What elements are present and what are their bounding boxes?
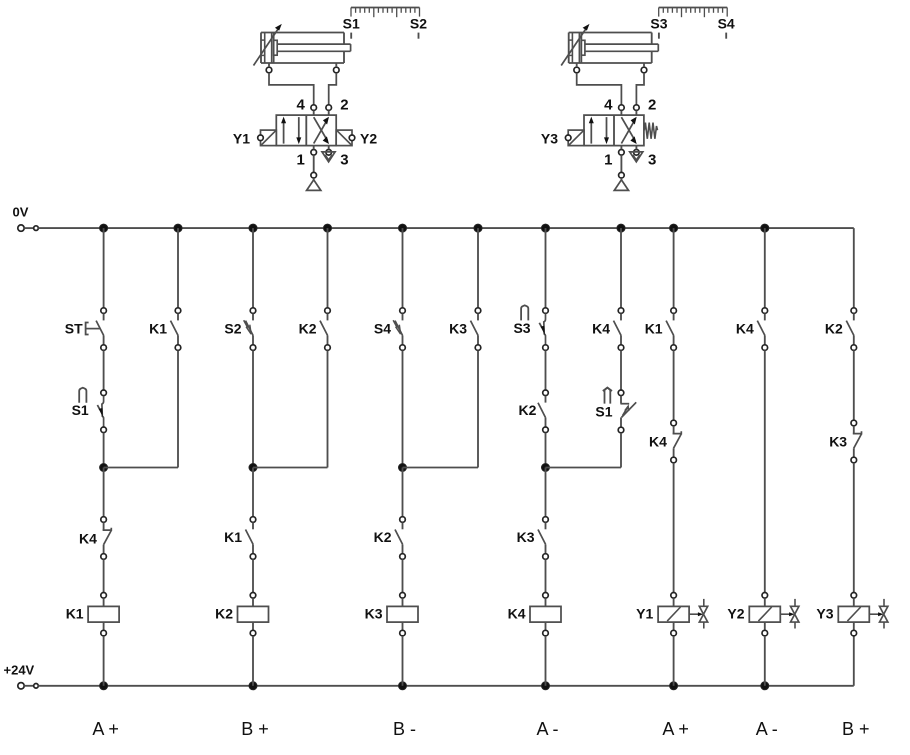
valve V1 port 3 [326,150,332,156]
junction node A4 [542,464,550,472]
svg-text:K3: K3 [517,529,535,545]
magnet symbol of S1 break [603,388,612,404]
svg-text:A -: A - [536,719,558,739]
svg-text:K4: K4 [736,320,754,336]
junction node rail-bottom branch 9 [670,682,678,690]
contact K3 (NO) b6 [471,308,481,351]
contact K2 (NO) b5 [395,517,405,560]
junction node A3 [399,464,407,472]
wire branch5 to coil [402,559,404,592]
wire branch10 to Y2 [764,350,766,592]
+24V supply rail [38,685,854,687]
wire branch1 junction to K4 [103,468,105,517]
cylinder port right stub [335,63,337,67]
svg-text:K4: K4 [649,433,667,449]
valve V2 port 4 [619,105,625,111]
wire branch3 to coil [252,559,254,592]
wire branch5 to junction [402,350,404,467]
0V rail corner to branch 11 [853,228,855,308]
svg-text:A -: A - [756,719,778,739]
limit switch S2 (NO) [246,308,256,351]
svg-text:K2: K2 [299,320,317,336]
S4 actuation arrow [393,320,400,334]
svg-text:ST: ST [65,320,83,336]
relay coil K4 [530,593,561,636]
port 4 stub [620,111,622,116]
svg-text:+24V: +24V [4,662,35,677]
svg-text:B -: B - [393,719,416,739]
wire branch5 top [402,228,404,308]
wire branch8 mid [620,350,622,390]
exhaust silencer at port 3 [630,152,643,162]
svg-text:K2: K2 [518,402,536,418]
junction node rail-top branch 9 [670,224,678,232]
contact K4 (NO) b10 [757,308,767,351]
wire branch9 bottom [673,636,675,686]
svg-text:S1: S1 [343,15,360,31]
+24V rail corner to branch 11 [853,636,855,686]
relay coil K2 [238,593,269,636]
junction node rail-top branch 10 [761,224,769,232]
junction node A2 [249,464,257,472]
svg-text:Y3: Y3 [541,130,558,146]
wire branch10 top [764,228,766,308]
valve V1 right-position crossed flow arrows [314,117,329,144]
svg-text:S1: S1 [595,404,612,420]
svg-text:S4: S4 [374,320,391,336]
svg-text:B +: B + [241,719,269,739]
port 4 stub [313,111,315,116]
limit switch S4 (NO) [395,308,405,351]
wire branch3 junction to K1 [252,468,254,517]
junction node rail-top branch 7 [542,224,550,232]
svg-text:K1: K1 [645,320,663,336]
svg-text:A +: A + [92,719,119,739]
svg-text:S4: S4 [718,15,735,31]
break contact K3 (NC) b11 [851,420,862,463]
S2 position mark [418,33,420,39]
magnet symbol of S1 [79,388,86,403]
distance ruler for S1/S2 [351,8,420,18]
wire branch7 to junction [545,433,547,468]
svg-text:Y2: Y2 [727,606,744,622]
S2 actuation arrow [244,320,251,334]
svg-text:K1: K1 [149,320,167,336]
0V supply rail [38,227,854,229]
piston [272,33,278,64]
wire port 1 to supply [620,155,622,172]
svg-text:S1: S1 [72,402,89,418]
wire branch11 mid [853,350,855,420]
wire branch3 bottom [252,636,254,686]
wire branch6 top [477,228,479,308]
svg-text:K2: K2 [374,529,392,545]
svg-text:B +: B + [842,719,870,739]
port 1 stub [313,146,315,150]
svg-text:Y1: Y1 [233,130,250,146]
cylinder port right stub [643,63,645,67]
svg-text:K2: K2 [825,320,843,336]
wire branch8 to junction A4 [546,467,622,469]
ST actuator [86,323,100,335]
relay coil K3 [387,593,418,636]
wire branch7 to coil [545,559,547,592]
supply connection node [311,172,317,178]
tube cylinder-A right port to valve port 2 [329,73,337,105]
pushbutton ST (NO) [96,308,106,351]
magnet symbol of S3 [521,305,528,320]
junction node rail-bottom branch 3 [249,682,257,690]
svg-text:2: 2 [340,97,348,114]
junction node rail-bottom branch 7 [542,682,550,690]
wire branch9 top [673,228,675,308]
relay coil K1 [88,593,119,636]
svg-text:3: 3 [340,152,348,169]
svg-text:K4: K4 [592,320,610,336]
wire branch1 to coil [103,559,105,592]
wire branch1 mid [103,350,105,390]
port 3 stub [328,146,330,150]
cylinder port right [334,67,340,73]
valve V2 port 1 [619,150,625,156]
valve V1 left-position flow arrows [281,117,301,145]
contact K1 (NO) b3 [246,517,256,560]
junction node rail-top branch 5 [399,224,407,232]
svg-text:4: 4 [604,97,613,114]
wire port 1 to supply [313,155,315,172]
cushioning-adjust arrow [561,24,589,66]
solenoid Y1 box [261,130,277,146]
junction node rail-top branch 4 [324,224,332,232]
contact K3 (NO) b7 [538,517,548,560]
exhaust silencer at port 3 [322,152,335,162]
wire branch8 top [620,228,622,308]
S3 position mark [658,33,660,39]
valve V1 port 2 [326,105,332,111]
S1 position mark [350,33,352,39]
wire branch4 top [327,228,329,308]
wire branch6 down [477,350,479,467]
wire branch2 to junction A1 [104,467,178,469]
break contact K4 (NC) [101,517,112,560]
svg-text:K2: K2 [215,606,233,622]
cylinder port right [641,67,647,73]
valve V2 return spring [644,123,657,139]
svg-text:Y3: Y3 [816,606,833,622]
solenoid coil Y1 [658,593,708,636]
wire branch9 mid [673,350,675,420]
cylinder A body [261,33,344,64]
svg-text:K1: K1 [66,606,84,622]
S4 position mark [725,33,727,39]
compressed-air source [614,178,628,190]
wire branch4 to junction A2 [253,467,328,469]
+24V rail terminal [18,683,39,689]
contact K2 (NO) b11 [846,308,856,351]
wire branch1 top [103,228,105,308]
cylinder port left stub [268,63,270,67]
valve V2 port 3 [634,150,640,156]
solenoid Y2 box [336,130,352,146]
solenoid Y1 terminal [258,135,264,141]
wire branch1 bottom [103,636,105,686]
wire branch1 to junction [103,433,105,468]
svg-text:3: 3 [648,152,656,169]
tube cylinder-B left port to valve port 4 [577,73,622,105]
piston [579,33,585,64]
port 3 stub [635,146,637,150]
contact K1 (NO) [171,308,181,351]
solenoid coil Y2 [749,593,799,636]
junction node rail-bottom branch 5 [399,682,407,690]
wire branch7 mid [545,350,547,390]
svg-text:A +: A + [662,719,689,739]
svg-text:K3: K3 [365,606,383,622]
valve V1 body [276,115,336,146]
svg-text:1: 1 [296,152,304,169]
svg-text:Y1: Y1 [636,606,653,622]
valve V1 port 1 [311,150,317,156]
svg-text:2: 2 [648,97,656,114]
valve V2 port 2 [634,105,640,111]
junction node rail-top branch 2 [174,224,182,232]
wire branch5 bottom [402,636,404,686]
valve V2 body [584,115,644,146]
port 1 stub [620,146,622,150]
valve V1 port 4 [311,105,317,111]
compressed-air source [307,178,321,190]
wire branch5 junction to K2 [402,468,404,517]
wire branch2 down [177,350,179,467]
contact K2 (NO) b4 [320,308,330,351]
valve V2 right-position crossed flow arrows [621,117,636,144]
cylinder port left [266,67,272,73]
cushioning-adjust arrow [254,24,282,66]
solenoid Y3 box [568,130,584,146]
reed switch S1 (NO) [97,390,106,433]
contact K4 (NO) b8 [614,308,624,351]
solenoid coil Y3 [838,593,888,636]
svg-text:S3: S3 [650,15,667,31]
junction node rail-bottom branch 1 [100,682,108,690]
cylinder port left stub [576,63,578,67]
tube cylinder-B right port to valve port 2 [636,73,644,105]
svg-text:4: 4 [296,97,305,114]
0V rail terminal [18,225,39,231]
svg-text:0V: 0V [13,204,29,219]
wire branch7 top [545,228,547,308]
valve V2 left-position flow arrows [589,117,609,145]
distance ruler for S3/S4 [659,8,728,18]
junction node rail-top branch 8 [617,224,625,232]
svg-text:K3: K3 [449,320,467,336]
junction node rail-top branch 3 [249,224,257,232]
contact K1 (NO) b9 [666,308,676,351]
svg-text:S3: S3 [513,320,530,336]
wire branch3 to junction [252,350,254,467]
svg-text:K4: K4 [79,530,97,546]
piston rod [277,44,350,51]
supply connection node [619,172,625,178]
svg-text:S2: S2 [410,15,427,31]
wire branch11 to Y3 [853,463,855,593]
svg-text:K3: K3 [829,433,847,449]
contact K2 (NO) b7 [538,390,548,433]
junction node A1 [100,464,108,472]
wire branch7 junction to K3 [545,468,547,517]
cylinder port left [574,67,580,73]
svg-text:K4: K4 [508,606,526,622]
wire branch9 to Y1 [673,463,675,593]
cylinder B body [569,33,652,64]
break contact K4 (NC) b9 [671,420,682,463]
svg-text:Y2: Y2 [360,130,377,146]
junction node rail-top branch 6 [474,224,482,232]
junction node rail-top branch 1 [100,224,108,232]
wire branch7 bottom [545,636,547,686]
svg-text:K1: K1 [224,529,242,545]
port 2 stub [635,111,637,116]
svg-text:S2: S2 [224,320,241,336]
junction node rail-bottom branch 10 [761,682,769,690]
reed switch S1 (NC) [618,390,636,433]
wire branch2 top [177,228,179,308]
wire branch8 down [620,433,622,468]
port 2 stub [328,111,330,116]
reed switch S3 (NO) [539,308,548,351]
wire branch3 top [252,228,254,308]
solenoid Y2 terminal [349,135,355,141]
wire branch6 to junction A3 [403,467,479,469]
svg-text:1: 1 [604,152,612,169]
tube cylinder-A left port to valve port 4 [269,73,314,105]
wire branch10 bottom [764,636,766,686]
solenoid Y3 terminal [565,135,571,141]
wire branch4 down [327,350,329,467]
piston rod [585,44,658,51]
